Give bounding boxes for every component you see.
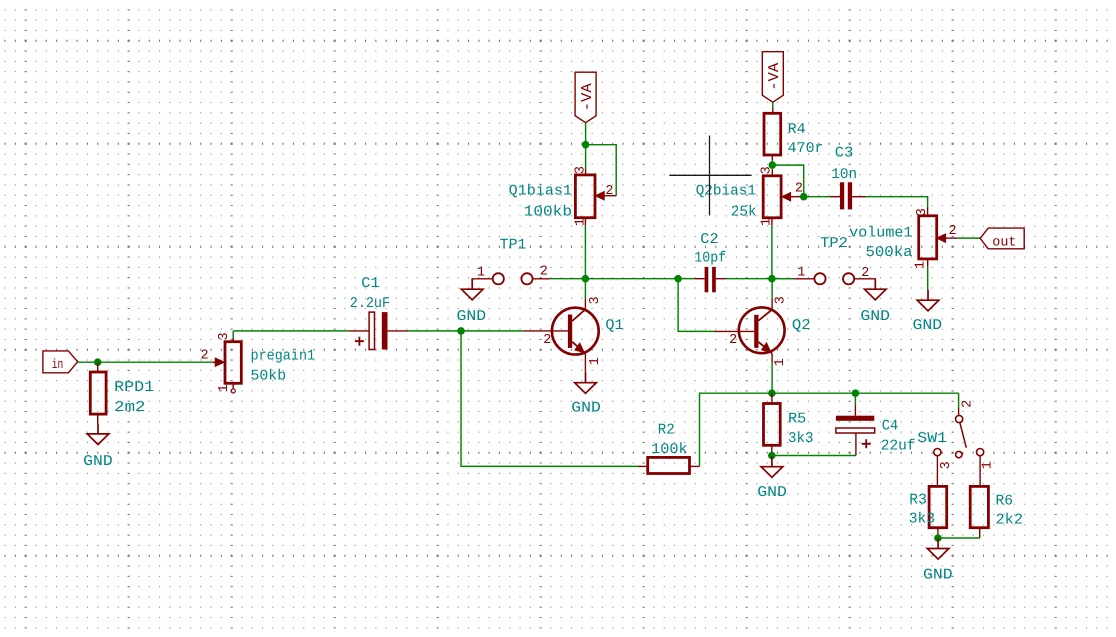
svg-text:3: 3 [217,332,232,340]
svg-text:TP1: TP1 [500,237,527,253]
junction Q2bias1 wiper node [800,193,808,201]
pin 1 volume1 [927,259,929,267]
pin 3 volume1 [927,208,929,216]
resistor R3 [929,486,947,527]
wire C2 to Q2 collector node [726,278,794,280]
pin 3 pregain1 [232,338,234,342]
svg-text:3k3: 3k3 [909,512,935,528]
svg-text:100k: 100k [651,442,688,458]
pin 2 wiper arrow Q1bias1 [604,195,616,197]
svg-text:pregain1: pregain1 [251,349,316,365]
svg-text:TP2: TP2 [820,236,848,252]
potentiometer Q1bias1 [575,175,595,218]
ground GND volume1 [917,290,939,311]
pin 3 Q2bias1 [771,165,773,170]
resistor R2 [638,465,648,467]
power symbol -VA 1 [575,72,596,123]
svg-text:22uf: 22uf [881,439,916,455]
svg-text:GND: GND [860,309,890,325]
capacitor C3 [804,196,830,198]
svg-text:R3: R3 [909,492,927,508]
junction bias1 node [582,141,590,149]
svg-text:100kb: 100kb [524,205,572,221]
resistor R6 [970,486,988,527]
junction input node [94,358,102,366]
hierarchical label in [43,351,78,373]
svg-text:GND: GND [83,454,113,470]
power symbol -VA 2 [762,52,783,102]
wire R2 to emitter node [700,393,959,466]
svg-text:-VA: -VA [766,63,783,91]
svg-text:50kb: 50kb [251,368,287,384]
wire volume1 to out [957,237,980,239]
svg-text:470r: 470r [788,141,824,157]
wire input row [78,361,213,363]
junction R4 node [769,161,777,169]
svg-text:2: 2 [201,349,209,364]
wire Q1bias1 to collector node [584,226,586,279]
svg-text:C3: C3 [835,146,854,162]
ground GND TP1 [461,279,483,300]
svg-text:1: 1 [797,265,805,280]
testpoint TP2 pin 2 [843,273,854,284]
wire pregain1 to C1 [233,330,348,332]
svg-text:Q2bias1: Q2bias1 [696,184,756,200]
testpoint TP1 pin 2 [521,273,532,284]
wire collector node to TP2 [772,278,794,280]
cursor crosshair [669,136,751,216]
svg-text:2: 2 [960,400,975,408]
svg-text:2: 2 [861,266,869,281]
svg-text:GND: GND [457,309,487,325]
svg-text:1: 1 [588,357,603,365]
junction C2 left node [674,275,682,283]
svg-text:R5: R5 [788,411,806,427]
ground GND R3 [927,538,949,559]
ground GND1 [87,424,109,445]
potentiometer Q2bias1 [763,176,781,218]
svg-text:in: in [52,358,64,373]
svg-text:1: 1 [573,218,588,226]
svg-text:3: 3 [588,296,603,304]
switch SW1 lever [960,423,966,448]
potentiometer pregain1 [225,342,241,384]
wire -VA2 to R4 [772,102,774,107]
transistor Q1 [552,308,599,355]
testpoint TP2 pin 1 [814,273,825,284]
svg-text:3: 3 [915,208,930,216]
switch SW1 common circle [956,451,962,457]
capacitor C2 [695,278,705,280]
junction C1 node [457,327,465,335]
wire to Q2 base [678,279,714,332]
svg-text:GND: GND [571,401,601,417]
svg-text:1: 1 [760,218,775,226]
wire Q1 collector [584,279,586,299]
svg-text:2m2: 2m2 [114,400,145,416]
plus sign C1 [355,337,364,346]
svg-text:3: 3 [573,166,588,174]
wire R4 node to wiper Q2bias1 [772,165,803,197]
resistor R5 [771,393,773,403]
svg-text:10pf: 10pf [694,251,726,267]
wire volume1 to ground [927,267,929,291]
potentiometer volume1 [919,216,937,259]
wire Q2bias1 to collector node [771,226,773,279]
pin 2 wiper arrow volume1 [937,234,946,242]
svg-text:3: 3 [760,166,775,174]
svg-text:1: 1 [914,261,929,269]
wire R5 to C4 bottom [772,455,856,457]
svg-text:R6: R6 [996,494,1014,510]
svg-text:GND: GND [913,318,943,334]
svg-text:RPD1: RPD1 [114,380,154,396]
svg-text:GND: GND [757,485,787,501]
svg-text:R2: R2 [658,422,675,438]
transistor Q2 [739,307,785,353]
pin 1 Q2bias1 [771,218,773,226]
wire R3 to R6 [938,537,980,539]
wire Q2 emitter [771,363,773,394]
hierarchical label out [980,228,1024,249]
svg-text:2: 2 [543,333,551,348]
pin 1 Q1bias1 [584,218,586,226]
pin 1 pregain1 [232,383,234,389]
svg-text:2: 2 [540,265,548,280]
svg-text:GND: GND [923,568,953,584]
svg-text:Q2: Q2 [792,318,811,334]
wire Q2 collector [771,279,773,299]
svg-text:Q1bias1: Q1bias1 [509,184,572,200]
svg-text:C1: C1 [361,276,380,292]
ground GND Q1 [575,372,597,393]
svg-text:C4: C4 [882,419,899,435]
switch SW1 pin 1 [977,449,984,456]
ground GND R5 [761,456,783,477]
svg-text:500ka: 500ka [866,245,913,261]
plus sign C4 [862,439,871,448]
junction Q2 emitter node [768,389,776,397]
svg-text:2.2uF: 2.2uF [350,296,390,312]
junction Q1 collector node [582,275,590,283]
wire R4 to junction [771,160,773,165]
svg-text:R4: R4 [788,122,806,138]
ground GND TP2 [865,279,887,300]
pin 2 wiper arrow Q2bias1 [791,196,804,198]
wire -VA to bias node [585,123,587,145]
wire C1 to Q1 base [408,330,523,332]
wire down to R2 [461,331,638,467]
svg-text:3: 3 [773,296,788,304]
svg-text:3: 3 [939,461,954,469]
svg-text:SW1: SW1 [917,431,947,447]
capacitor C4 polarized [854,393,856,405]
junction R3 bottom node [934,534,942,542]
svg-text:1: 1 [773,358,788,366]
testpoint TP1 pin 1 [493,273,504,284]
svg-text:-VA: -VA [579,83,596,111]
pin 3 Q1bias1 [585,145,587,169]
svg-text:10n: 10n [831,167,857,183]
svg-text:out: out [992,236,1016,251]
pin 2 wiper arrow pregain1 [213,361,217,363]
switch SW1 pin 3 [934,449,941,456]
junction Q2 collector node [768,275,776,283]
svg-text:1: 1 [217,384,232,392]
svg-text:2: 2 [605,184,613,199]
svg-text:25k: 25k [731,205,757,221]
wire TP1 to C2 [550,278,695,280]
svg-text:2k2: 2k2 [996,513,1024,529]
switch SW1 pin 2 [958,393,960,407]
svg-text:volume1: volume1 [849,226,912,242]
svg-text:1: 1 [980,461,995,469]
svg-text:1: 1 [477,265,485,280]
svg-text:2: 2 [949,224,957,239]
svg-text:C2: C2 [700,232,718,248]
resistor R4 [772,108,774,114]
svg-text:3k3: 3k3 [788,431,814,447]
svg-text:Q1: Q1 [605,318,623,334]
resistor RPD1 [97,362,99,372]
wire C3 to volume1 [866,197,928,208]
junction C4 top node [852,389,860,397]
capacitor C1 polarized [348,330,369,332]
junction R5 bottom node [768,452,776,460]
svg-text:2: 2 [729,333,737,348]
wire bias node to wiper Q1bias1 [586,145,617,196]
